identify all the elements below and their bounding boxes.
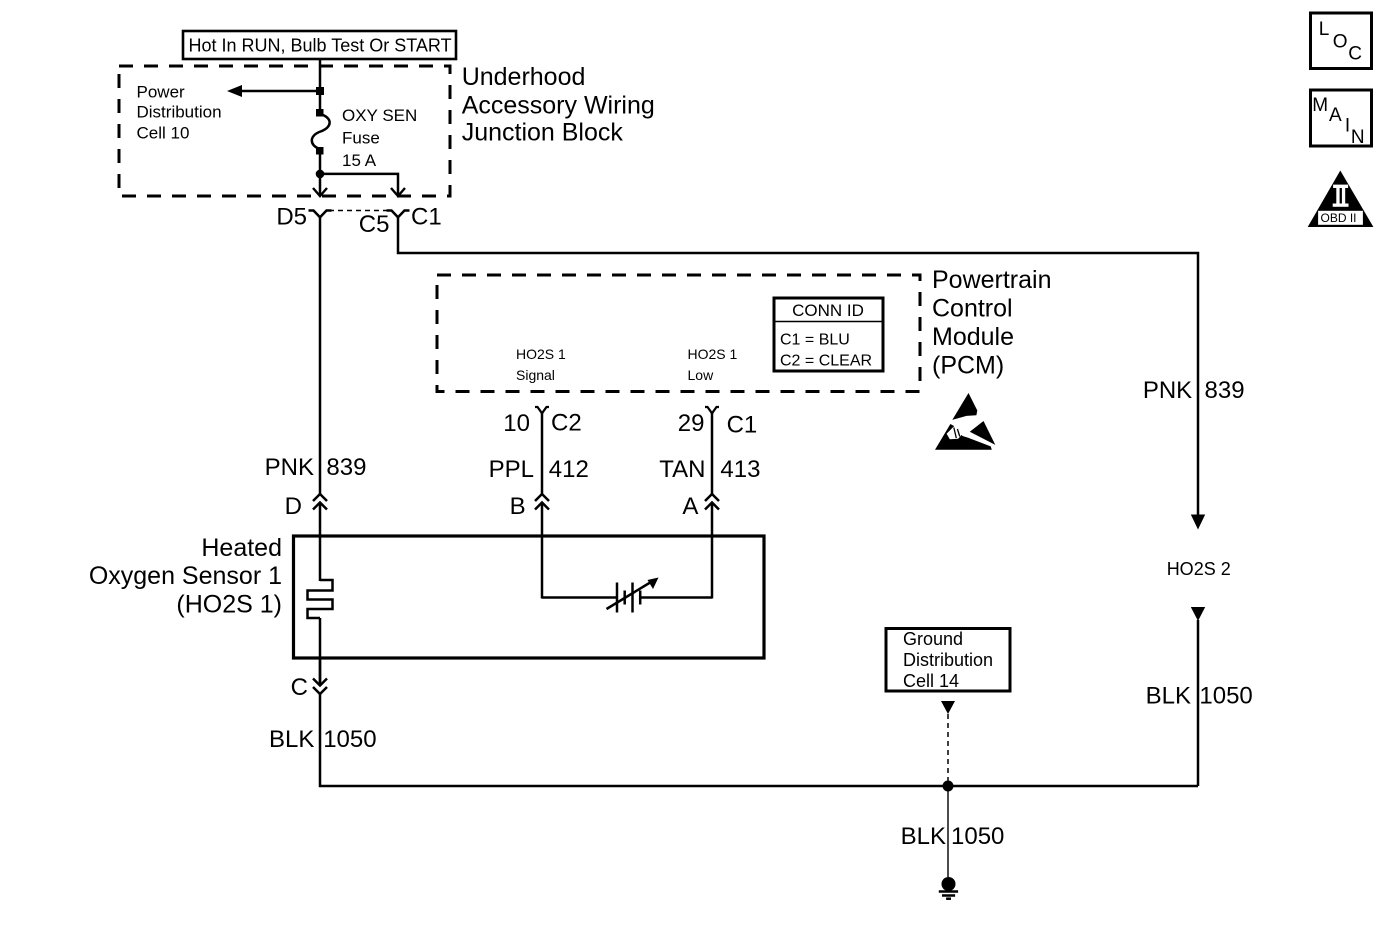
svg-text:A: A: [1329, 105, 1342, 126]
icon: OBD II triangle: [1308, 171, 1374, 228]
svg-text:Cell 14: Cell 14: [903, 671, 959, 691]
label: PNK 839 (right): [1143, 377, 1245, 404]
connector 10 C2: [535, 407, 549, 413]
dashed box: Underhood Accessory Wiring Junction Block: [119, 66, 450, 196]
svg-text:Module: Module: [932, 323, 1014, 351]
node: ground junction dot: [943, 781, 954, 792]
wire: A into sensor: [711, 503, 714, 599]
svg-text:D: D: [285, 493, 302, 520]
table: CONN ID box: [774, 298, 883, 371]
wire: B into sensor: [541, 503, 544, 599]
svg-text:Distribution: Distribution: [903, 650, 993, 670]
wire: PPL 412 vertical: [541, 413, 544, 494]
svg-text:PNK: PNK: [1143, 377, 1192, 404]
svg-text:C2: C2: [551, 410, 582, 437]
svg-text:839: 839: [326, 454, 366, 481]
wire: junction square to fuse: [319, 91, 322, 110]
sensor cell (variable battery): [607, 578, 659, 613]
svg-text:HO2S 1: HO2S 1: [516, 346, 566, 362]
node: junction dot below fuse: [316, 170, 325, 179]
svg-text:15 A: 15 A: [342, 151, 377, 170]
svg-text:29: 29: [678, 410, 705, 437]
svg-text:PNK: PNK: [265, 454, 314, 481]
wire: cell to A: [640, 596, 712, 599]
dashed box: PCM: [437, 275, 920, 392]
svg-text:(HO2S 1): (HO2S 1): [176, 591, 282, 619]
svg-text:10: 10: [503, 410, 530, 437]
connector 29 C1: [705, 407, 719, 413]
wire: heater to C terminal: [319, 618, 322, 684]
wire: dashed link to ground junction: [947, 714, 949, 781]
splice chevrons B: [535, 494, 549, 510]
svg-text:HO2S 1: HO2S 1: [688, 346, 738, 362]
svg-text:Control: Control: [932, 295, 1013, 323]
svg-text:Accessory Wiring: Accessory Wiring: [462, 91, 655, 119]
svg-text:Cell 10: Cell 10: [137, 124, 190, 143]
icon: LOC box: [1311, 13, 1372, 69]
ground symbol: [939, 877, 958, 899]
label: PPL 412: [489, 456, 589, 483]
label: HO2S 1 Low: [688, 346, 738, 383]
svg-text:A: A: [682, 493, 698, 520]
box: Heated Oxygen Sensor 1 (HO2S 1): [294, 536, 765, 658]
label: BLK 1050 (bottom): [901, 823, 1005, 850]
connector C1 (junction block): [387, 211, 410, 218]
label: Powertrain Control Module (PCM): [932, 266, 1052, 379]
label: BLK 1050 (left): [269, 726, 377, 753]
connector D5: [309, 211, 332, 218]
wire: PNK 839 left vertical (D5 to sensor D): [319, 217, 322, 494]
wire: D into sensor: [319, 503, 322, 581]
icon: MAIN box: [1311, 90, 1372, 148]
svg-text:M: M: [1312, 95, 1328, 116]
svg-text:N: N: [1351, 127, 1365, 148]
label: BLK 1050 (right): [1146, 682, 1253, 709]
svg-text:BLK: BLK: [1146, 682, 1191, 709]
heater element: [308, 580, 333, 618]
svg-text:839: 839: [1205, 377, 1245, 404]
label: Underhood Accessory Wiring Junction Block: [462, 63, 655, 147]
label: PNK 839 (left): [265, 454, 367, 481]
arrowhead: down to HO2S 2: [1191, 515, 1205, 530]
label: OXY SEN Fuse 15 A: [342, 106, 417, 170]
svg-text:Power: Power: [137, 82, 186, 101]
label: Heated Oxygen Sensor 1 (HO2S 1): [89, 534, 282, 619]
svg-text:Powertrain: Powertrain: [932, 266, 1052, 294]
fuse: OXY SEN Fuse 15 A: [312, 109, 330, 155]
splice chevrons A: [705, 494, 719, 510]
label: Power Distribution Cell 10: [137, 82, 222, 142]
wire: C chevron upper stub: [319, 658, 322, 684]
triangle: ground distribution pointer: [941, 701, 955, 714]
svg-text:C: C: [291, 674, 308, 701]
svg-text:L: L: [1319, 19, 1330, 40]
svg-text:Distribution: Distribution: [137, 103, 222, 122]
svg-text:I: I: [1345, 115, 1350, 136]
wire: TAN 413 vertical: [711, 413, 714, 494]
svg-text:BLK: BLK: [901, 823, 946, 850]
svg-text:Junction Block: Junction Block: [462, 119, 624, 147]
wire: from Hot box down to junction: [319, 59, 322, 88]
connector body dashed link: [329, 210, 389, 212]
svg-text:B: B: [510, 493, 526, 520]
splice chevrons D: [313, 494, 327, 510]
svg-text:BLK: BLK: [269, 726, 314, 753]
wire: fuse to junction dot: [319, 154, 322, 178]
svg-text:413: 413: [720, 456, 760, 483]
wire: arrowhead down to C1: [391, 188, 405, 196]
wire: arrow down to D5: [313, 176, 327, 196]
icon: ESD symbol: [935, 393, 995, 450]
wire: C1 to PCM right side PNK 839: [398, 217, 1198, 516]
svg-text:Signal: Signal: [516, 367, 555, 383]
svg-text:OBD II: OBD II: [1321, 211, 1357, 225]
svg-text:Fuse: Fuse: [342, 129, 380, 148]
svg-text:412: 412: [549, 456, 589, 483]
svg-text:(PCM): (PCM): [932, 351, 1004, 379]
label: HO2S 1 Signal: [516, 346, 566, 383]
svg-text:PPL: PPL: [489, 456, 534, 483]
svg-text:TAN: TAN: [659, 456, 705, 483]
svg-text:C: C: [1348, 43, 1362, 64]
triangle: HO2S 2 wire resume: [1191, 607, 1205, 621]
svg-text:1050: 1050: [1199, 682, 1252, 709]
svg-text:Underhood: Underhood: [462, 63, 586, 91]
svg-text:HO2S 2: HO2S 2: [1167, 559, 1231, 579]
svg-text:Low: Low: [688, 367, 715, 383]
svg-text:C1: C1: [411, 204, 442, 231]
wire: junction to ground: [947, 786, 949, 877]
label: TAN 413: [659, 456, 760, 483]
svg-text:C1 = BLU: C1 = BLU: [780, 332, 850, 349]
svg-text:D5: D5: [276, 204, 307, 231]
svg-text:O: O: [1333, 32, 1348, 53]
wire: C down and bottom run: [320, 694, 1198, 786]
svg-text:CONN ID: CONN ID: [792, 301, 864, 320]
wire: arrow to Power Distribution (left): [227, 85, 320, 97]
box: Hot In RUN, Bulb Test Or START: [183, 31, 456, 59]
svg-text:1050: 1050: [323, 726, 376, 753]
svg-text:Oxygen Sensor 1: Oxygen Sensor 1: [89, 562, 282, 590]
svg-text:OXY SEN: OXY SEN: [342, 106, 417, 125]
svg-text:1050: 1050: [951, 823, 1004, 850]
wire: B to sensor cell: [542, 596, 617, 599]
svg-text:C5: C5: [359, 211, 390, 238]
svg-text:Hot In RUN, Bulb Test Or START: Hot In RUN, Bulb Test Or START: [189, 36, 452, 56]
svg-text:C2 = CLEAR: C2 = CLEAR: [780, 353, 872, 370]
svg-text:Heated: Heated: [201, 534, 282, 562]
svg-text:C1: C1: [727, 412, 758, 439]
svg-text:Ground: Ground: [903, 629, 963, 649]
wire: right BLK 1050 vertical: [1197, 620, 1200, 786]
box: Ground Distribution Cell 14: [886, 629, 1010, 692]
splice chevrons C (down): [313, 679, 327, 695]
node: junction square at power feed: [316, 87, 324, 95]
wire: branch to C1 feed: [320, 174, 398, 196]
